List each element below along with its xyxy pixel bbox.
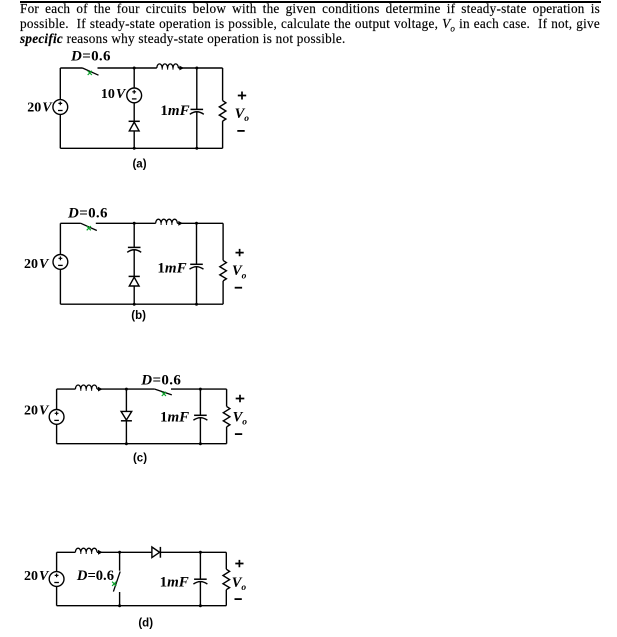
svg-text:10V: 10V [101, 87, 127, 102]
wire b mid bottom [133, 286, 135, 304]
diode D3 [121, 411, 132, 420]
switch S1 [83, 68, 99, 75]
wire c bottom [57, 443, 227, 445]
capacitor C2 [127, 247, 141, 252]
svg-text:20V: 20V [24, 403, 50, 418]
wire d cap branch lower [199, 582, 201, 606]
wire a right lower [222, 121, 224, 148]
capacitor C1 1mF [190, 109, 204, 114]
wire d right upper [225, 552, 227, 569]
wire b left bottom [59, 269, 61, 304]
wire c top 1 [57, 388, 76, 390]
junction node c bottom-cap [199, 442, 202, 445]
wire a cap branch lower [196, 112, 198, 149]
wire c top 2 [97, 388, 155, 390]
wire a bottom [60, 147, 222, 149]
diode D1 [129, 121, 140, 131]
svg-text:(c): (c) [133, 453, 147, 465]
label minus b [235, 287, 242, 289]
svg-text:1mF: 1mF [157, 261, 186, 277]
svg-text:20V: 20V [27, 101, 53, 116]
svg-text:1mF: 1mF [160, 103, 189, 119]
svg-text:Vo: Vo [232, 263, 247, 281]
wire b top 3 [177, 222, 223, 224]
wire d left top [56, 552, 58, 571]
junction node a bottom-cap [195, 147, 198, 150]
inductor L3 [75, 385, 102, 392]
label plus a [238, 92, 246, 100]
wire d right lower [225, 590, 227, 606]
voltage source VS1 20V [53, 100, 68, 115]
junction node b bottom-mid [133, 303, 136, 306]
wire c diode branch lower [125, 421, 127, 444]
wire a left bottom [59, 114, 61, 148]
voltage source VS2 10V [127, 88, 142, 103]
wire b mid upper [133, 223, 135, 247]
junction node c bottom-diode [125, 442, 128, 445]
label minus d [235, 598, 242, 600]
svg-text:1mF: 1mF [160, 409, 189, 425]
resistor RL c [223, 406, 230, 427]
wire b cap branch upper [196, 223, 198, 264]
capacitor C3 1mF [190, 264, 204, 269]
voltage source VS3 20V [53, 255, 68, 270]
wire a top 2 [98, 67, 157, 69]
junction node c top-cap [199, 388, 202, 391]
switch S4 [112, 552, 120, 605]
wire d bottom [57, 605, 227, 607]
label plus c [236, 395, 245, 402]
junction node a bottom-mid [133, 147, 136, 150]
inductor L1 [157, 64, 184, 71]
svg-text:(d): (d) [138, 617, 153, 629]
svg-text:Vo: Vo [235, 106, 250, 124]
label minus a [237, 130, 244, 132]
svg-text:(a): (a) [132, 158, 146, 170]
svg-text:20V: 20V [24, 257, 50, 272]
switch S2 [81, 223, 97, 230]
capacitor C4 1mF [193, 415, 207, 420]
wire d top 2 [97, 551, 152, 553]
label minus c [235, 433, 242, 435]
diode D2 [129, 276, 140, 286]
wire d top 3 [160, 551, 226, 553]
junction node c top-diode [125, 388, 128, 391]
diode D4 [152, 547, 161, 558]
svg-text:20V: 20V [24, 569, 50, 584]
junction node d top-switch [118, 551, 121, 554]
paragraph line 3 [20, 32, 600, 47]
svg-text:D=0.6: D=0.6 [70, 48, 111, 64]
wire c cap branch lower [199, 418, 201, 444]
wire c left top [56, 389, 58, 410]
wire b mid middle [133, 250, 135, 277]
wire c diode branch upper [125, 389, 127, 411]
wire c right lower [226, 427, 228, 444]
wire d top 1 [57, 551, 76, 553]
switch S3 [155, 389, 172, 396]
inductor L4 [75, 548, 102, 555]
wire b top 1 [60, 222, 80, 224]
svg-text:Vo: Vo [232, 575, 247, 593]
junction node a top-mid [133, 67, 136, 70]
wire b right upper [222, 223, 224, 260]
paragraph line 2 [20, 17, 600, 32]
junction node b bottom-cap [195, 303, 198, 306]
svg-text:Vo: Vo [233, 409, 248, 427]
wire c top 3 [171, 388, 227, 390]
wire d left bottom [56, 586, 58, 605]
wire a cap branch upper [196, 68, 198, 109]
junction node b top-mid [133, 222, 136, 225]
junction node a top-cap [195, 67, 198, 70]
wire a mid lower [133, 103, 135, 122]
junction node d bottom-switch [118, 604, 121, 607]
wire a top 1 [60, 67, 82, 69]
paragraph line 1 [20, 2, 600, 17]
wire c cap branch upper [199, 389, 201, 415]
wire a mid upper [133, 68, 135, 88]
label plus d [235, 560, 243, 567]
junction node d top-cap [199, 551, 202, 554]
wire b cap branch lower [196, 267, 198, 305]
voltage source VS4 20V [49, 410, 64, 425]
svg-text:D=0.6: D=0.6 [76, 568, 114, 584]
wire b top 2 [96, 222, 156, 224]
svg-text:(b): (b) [131, 310, 146, 322]
wire a top 3 [178, 67, 222, 69]
label plus b [236, 249, 244, 256]
svg-text:1mF: 1mF [160, 574, 189, 590]
wire c left bottom [56, 424, 58, 444]
resistor RL a [219, 101, 226, 122]
wire a left top [59, 68, 61, 100]
voltage source VS5 20V [49, 572, 64, 587]
wire a right upper [222, 68, 224, 101]
resistor RL d [223, 569, 230, 590]
capacitor C5 1mF [193, 579, 207, 584]
wire b bottom [60, 303, 223, 305]
wire d cap branch upper [199, 552, 201, 579]
wire b left top [59, 223, 61, 254]
svg-text:D=0.6: D=0.6 [140, 372, 181, 388]
wire b right lower [222, 281, 224, 304]
inductor L2 [156, 219, 183, 226]
junction node b top-cap [195, 222, 198, 225]
top rule [20, 1, 601, 3]
resistor RL b [220, 260, 227, 281]
junction node d bottom-cap [199, 604, 202, 607]
svg-text:D=0.6: D=0.6 [67, 205, 108, 221]
wire c right upper [226, 389, 228, 406]
wire a mid bottom [133, 131, 135, 148]
